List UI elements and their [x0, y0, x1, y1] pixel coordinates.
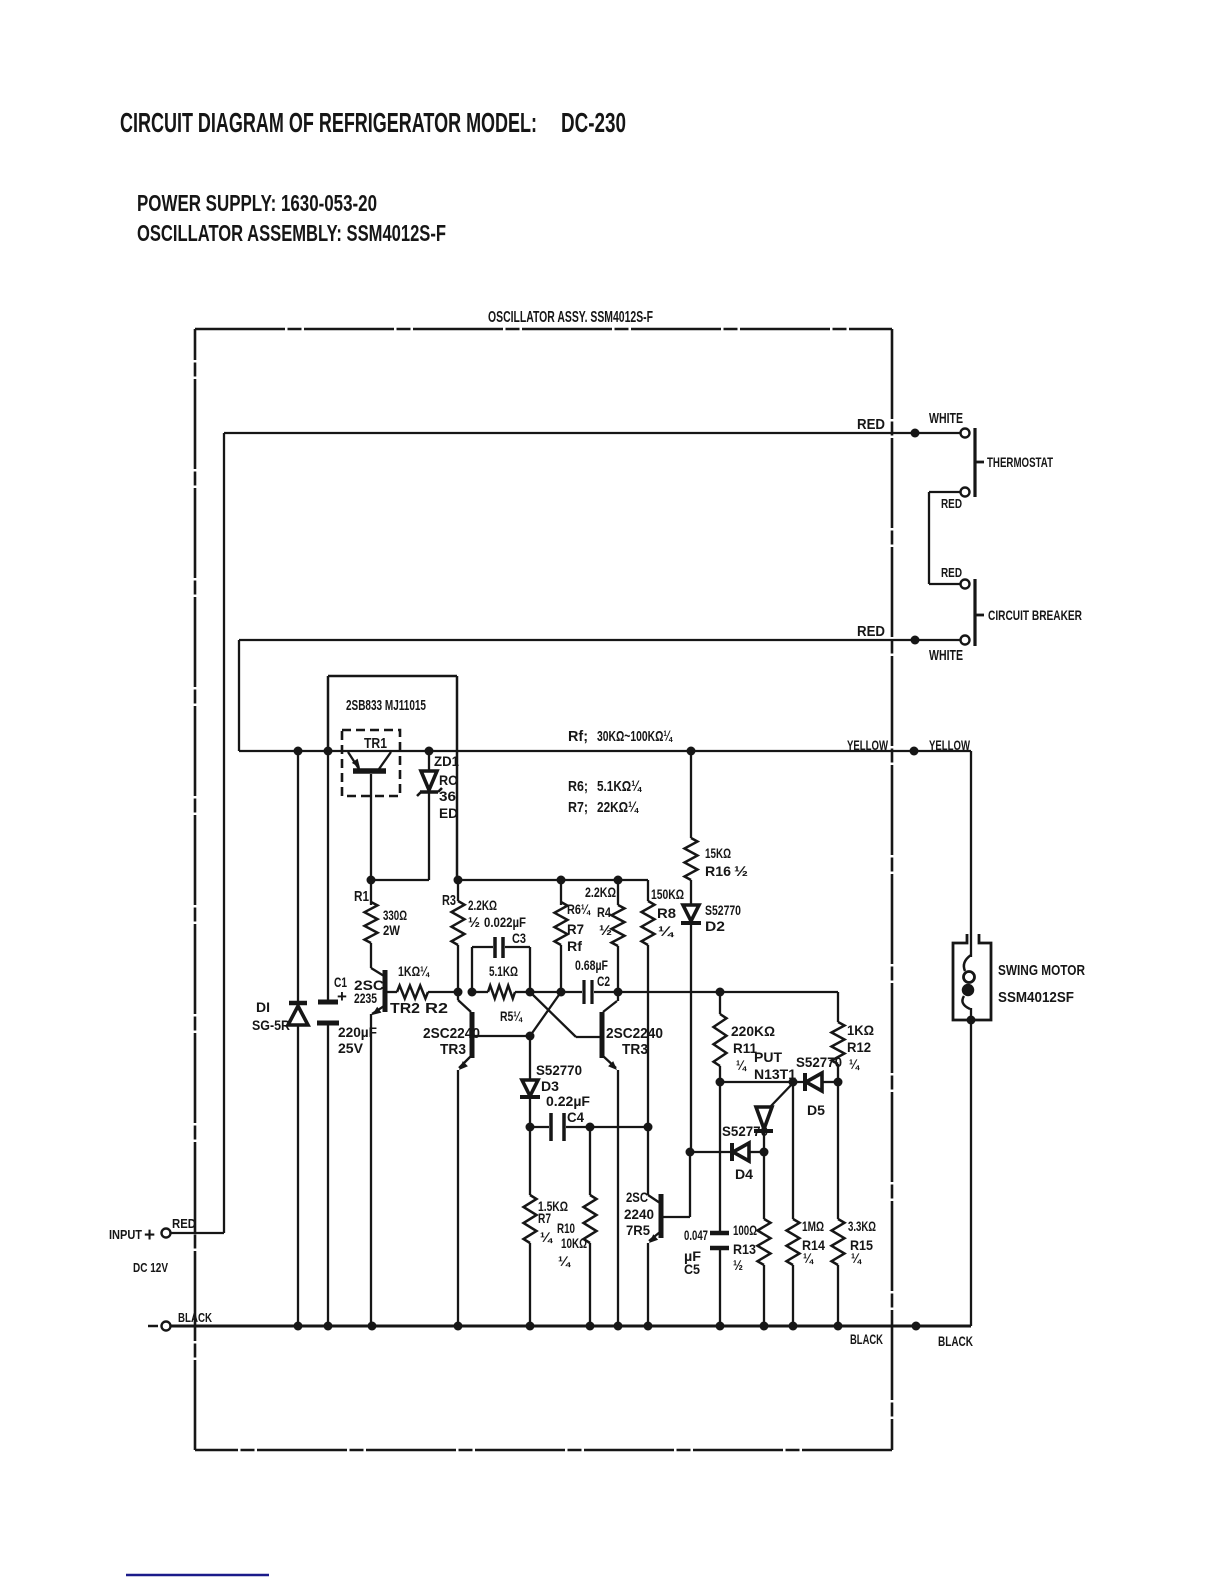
svg-text:RED: RED [857, 623, 885, 640]
svg-text:DC-230: DC-230 [561, 107, 626, 138]
svg-text:TR3: TR3 [440, 1041, 466, 1058]
svg-text:R7;: R7; [568, 799, 588, 816]
svg-text:10KΩ: 10KΩ [561, 1235, 587, 1251]
svg-text:7R5: 7R5 [626, 1222, 650, 1238]
svg-text:25V: 25V [338, 1040, 364, 1056]
svg-text:SG-5R: SG-5R [252, 1017, 290, 1033]
svg-text:5.1KΩ: 5.1KΩ [489, 963, 518, 979]
svg-text:ED: ED [439, 805, 458, 821]
svg-text:R10: R10 [557, 1220, 575, 1236]
svg-text:D3: D3 [541, 1078, 559, 1094]
svg-text:Rf;: Rf; [568, 728, 588, 745]
svg-text:R16: R16 [705, 863, 731, 879]
svg-text:POWER SUPPLY: 1630-053-20: POWER SUPPLY: 1630-053-20 [137, 190, 377, 216]
svg-text:R3: R3 [442, 892, 456, 909]
svg-text:PUT: PUT [754, 1049, 782, 1065]
svg-text:D4: D4 [735, 1166, 753, 1182]
svg-text:BLACK: BLACK [938, 1333, 973, 1349]
svg-text:+: + [144, 1225, 155, 1246]
svg-text:S52770: S52770 [722, 1123, 768, 1139]
svg-text:2.2KΩ: 2.2KΩ [585, 884, 616, 900]
svg-text:220KΩ: 220KΩ [731, 1023, 775, 1039]
svg-text:C4: C4 [567, 1109, 584, 1125]
svg-text:½: ½ [599, 922, 612, 938]
svg-text:BLACK: BLACK [178, 1310, 212, 1325]
svg-text:R6¼: R6¼ [567, 901, 591, 917]
svg-text:RED: RED [857, 416, 885, 433]
svg-text:DC 12V: DC 12V [133, 1260, 168, 1275]
svg-text:R13: R13 [733, 1241, 756, 1257]
svg-text:R8: R8 [657, 905, 676, 921]
svg-text:5.1KΩ¼: 5.1KΩ¼ [597, 778, 642, 795]
svg-text:2SC2240: 2SC2240 [606, 1025, 663, 1042]
svg-text:3.3KΩ: 3.3KΩ [848, 1218, 876, 1234]
svg-text:D2: D2 [705, 918, 725, 934]
svg-text:¼: ¼ [849, 1056, 860, 1072]
svg-text:SWING MOTOR: SWING MOTOR [998, 962, 1085, 979]
svg-text:2W: 2W [383, 922, 401, 938]
svg-text:ZD1: ZD1 [434, 753, 459, 769]
svg-text:TR1: TR1 [364, 735, 387, 752]
svg-text:100Ω: 100Ω [733, 1222, 757, 1238]
svg-text:OSCILLATOR ASSEMBLY: SSM4012S-: OSCILLATOR ASSEMBLY: SSM4012S-F [137, 220, 446, 246]
svg-text:C5: C5 [684, 1261, 700, 1277]
svg-text:15KΩ: 15KΩ [705, 845, 731, 861]
svg-text:R5¼: R5¼ [500, 1008, 523, 1024]
svg-text:BLACK: BLACK [850, 1331, 883, 1347]
svg-text:0.022µF: 0.022µF [484, 914, 526, 930]
svg-text:¼: ¼ [540, 1229, 553, 1245]
svg-text:½: ½ [734, 863, 748, 879]
svg-text:1KΩ: 1KΩ [847, 1022, 874, 1038]
svg-text:N13T1: N13T1 [754, 1066, 796, 1082]
svg-text:CIRCUIT DIAGRAM OF REFRIGERATO: CIRCUIT DIAGRAM OF REFRIGERATOR MODEL: [120, 107, 537, 138]
svg-text:WHITE: WHITE [929, 647, 963, 664]
svg-text:TR3: TR3 [622, 1041, 648, 1058]
svg-text:R7: R7 [538, 1210, 551, 1226]
svg-text:½: ½ [468, 914, 480, 930]
svg-text:S52770: S52770 [536, 1062, 582, 1078]
svg-text:R4: R4 [597, 904, 611, 920]
svg-text:CIRCUIT BREAKER: CIRCUIT BREAKER [988, 607, 1082, 623]
svg-text:R7: R7 [567, 921, 584, 937]
svg-text:C3: C3 [512, 930, 526, 946]
svg-text:Rf: Rf [567, 938, 582, 954]
svg-text:36: 36 [439, 788, 456, 804]
svg-text:THERMOSTAT: THERMOSTAT [987, 454, 1053, 470]
svg-text:1MΩ: 1MΩ [802, 1218, 824, 1234]
svg-text:2235: 2235 [354, 990, 377, 1006]
svg-text:RED: RED [941, 496, 962, 511]
svg-text:DI: DI [256, 999, 270, 1015]
svg-text:2SB833 MJ11015: 2SB833 MJ11015 [346, 697, 426, 714]
svg-text:¼: ¼ [558, 1253, 571, 1269]
svg-text:YELLOW: YELLOW [929, 737, 971, 753]
svg-text:S52770: S52770 [705, 902, 741, 918]
svg-text:R6;: R6; [568, 778, 588, 795]
svg-text:330Ω: 330Ω [383, 907, 407, 923]
svg-text:R1: R1 [354, 888, 369, 905]
svg-text:0.047: 0.047 [684, 1227, 708, 1243]
svg-text:0.68µF: 0.68µF [575, 957, 608, 973]
svg-text:R2: R2 [425, 1000, 448, 1017]
svg-text:C2: C2 [597, 973, 610, 989]
svg-text:+: + [337, 987, 347, 1006]
svg-text:RO: RO [439, 772, 458, 788]
svg-text:2SC: 2SC [626, 1189, 648, 1205]
svg-text:30KΩ~100KΩ¼: 30KΩ~100KΩ¼ [597, 728, 673, 745]
svg-text:RED: RED [941, 565, 962, 580]
svg-text:2.2KΩ: 2.2KΩ [468, 897, 497, 913]
svg-text:22KΩ¼: 22KΩ¼ [597, 799, 639, 816]
svg-text:OSCILLATOR ASSY. SSM4012S-F: OSCILLATOR ASSY. SSM4012S-F [488, 309, 653, 326]
svg-text:D5: D5 [807, 1102, 825, 1118]
svg-text:R12: R12 [847, 1039, 871, 1055]
svg-text:¼: ¼ [851, 1250, 862, 1266]
svg-text:2240: 2240 [624, 1206, 654, 1222]
svg-text:INPUT: INPUT [109, 1227, 142, 1242]
svg-text:¼: ¼ [658, 923, 675, 939]
svg-text:YELLOW: YELLOW [847, 737, 889, 753]
svg-text:¼: ¼ [803, 1250, 814, 1266]
svg-text:0.22µF: 0.22µF [546, 1093, 590, 1109]
svg-text:TR2: TR2 [390, 1000, 420, 1017]
svg-text:SSM4012SF: SSM4012SF [998, 989, 1074, 1006]
svg-text:WHITE: WHITE [929, 410, 963, 427]
svg-text:1KΩ¼: 1KΩ¼ [398, 963, 430, 979]
svg-text:150KΩ: 150KΩ [651, 886, 684, 902]
svg-text:¼: ¼ [736, 1057, 747, 1073]
svg-text:RED: RED [172, 1216, 196, 1231]
svg-text:2SC2240: 2SC2240 [423, 1025, 480, 1042]
svg-text:½: ½ [733, 1257, 743, 1273]
